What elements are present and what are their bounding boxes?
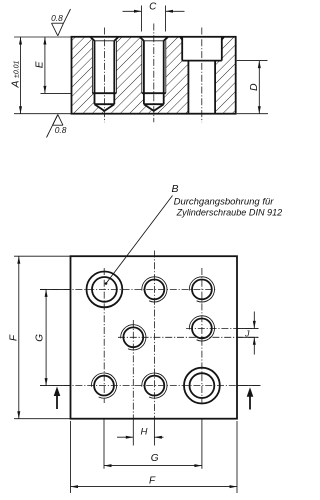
bold datum arrow right (247, 387, 254, 409)
threaded hole M1 white cutout (left) (90, 36, 118, 111)
threaded hole plan (top-right) (189, 277, 214, 302)
extension line bottom row right (solid beyond plate) (237, 385, 261, 387)
threaded hole plan (bottom-left) (91, 373, 116, 398)
dimension C (123, 2, 185, 32)
dimension G horizontal (104, 420, 202, 469)
svg-text:H: H (141, 427, 148, 438)
threaded hole M1 outline (91, 37, 119, 111)
centerline row J hole (186, 327, 258, 329)
extension line J bottom (solid beyond plate) (237, 336, 259, 338)
extension line bottom row left (solid) (40, 385, 71, 387)
svg-text:Zylinderschraube DIN 912: Zylinderschraube DIN 912 (176, 207, 283, 217)
surface finish symbol 0.8 top (51, 9, 70, 36)
surface finish symbol 0.8 bottom (47, 115, 67, 138)
threaded hole M2 white cutout (middle) (140, 36, 168, 111)
threaded hole plan (top-middle) (142, 277, 167, 302)
centerline bottom row (40, 385, 261, 387)
dimension F vertical (8, 256, 70, 419)
svg-text:A ±0.01: A ±0.01 (11, 60, 22, 88)
svg-text:Durchgangsbohrung für: Durchgangsbohrung für (174, 196, 275, 207)
plan view plate outline (71, 256, 238, 419)
centerline row 1 (40, 288, 217, 290)
svg-text:D: D (248, 83, 260, 91)
dimension E (35, 37, 72, 93)
svg-text:C: C (149, 2, 157, 13)
counterbored hole B1 plan (top-left) (87, 272, 123, 308)
centerline column right (201, 268, 203, 404)
svg-text:0.8: 0.8 (55, 125, 67, 135)
section plate outline (72, 37, 236, 114)
centerline column mid-left (132, 320, 134, 418)
threaded hole plan (center-left) (121, 325, 146, 350)
extension line J top (solid beyond plate) (237, 327, 259, 329)
svg-text:F: F (8, 334, 19, 341)
centerline column left (103, 268, 105, 403)
extension line top row left (solid) (40, 288, 71, 290)
bold datum arrow left (54, 387, 61, 410)
counterbored hole outline (section) (180, 37, 223, 113)
counterbored hole B2 plan (bottom-right) (184, 368, 220, 404)
threaded hole plan (bottom-middle) (142, 373, 167, 398)
svg-text:G: G (151, 453, 159, 464)
counterbored hole B white cutout (right) (182, 37, 222, 114)
dimension J (244, 312, 256, 355)
centerline column center (153, 251, 155, 419)
dimension H (117, 419, 164, 446)
svg-text:G: G (34, 334, 45, 342)
dimension D (237, 61, 268, 114)
centerline middle hole row (118, 336, 258, 338)
svg-text:F: F (149, 475, 156, 486)
centerline hole M1 (103, 28, 105, 123)
svg-text:E: E (35, 61, 46, 68)
dimension G vertical (34, 289, 47, 385)
centerline hole M2 (153, 24, 155, 123)
dimension F horizontal (71, 421, 238, 493)
threaded hole M2 outline (140, 37, 168, 111)
svg-text:0.8: 0.8 (51, 13, 63, 23)
dimension A ±0.01 (11, 37, 72, 114)
threaded hole plan (right, second row) (189, 316, 214, 341)
svg-text:B: B (172, 183, 179, 195)
leader B with note text (105, 183, 283, 285)
centerline counterbored hole (201, 28, 203, 123)
section view hatched plate body (72, 37, 236, 114)
